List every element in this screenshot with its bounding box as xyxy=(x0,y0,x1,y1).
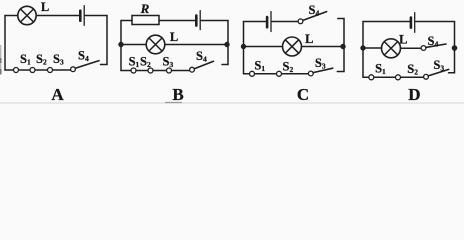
wire C middle rail left xyxy=(244,46,283,48)
wire B bottom rail xyxy=(121,70,190,72)
switch S4 lever open (B) xyxy=(194,61,213,69)
wire C middle rail right xyxy=(302,46,345,48)
wire D top rail left xyxy=(363,21,410,23)
scan artifact left edge xyxy=(0,45,2,75)
svg-text:A: A xyxy=(51,85,64,104)
switch S4 lever open (A) xyxy=(75,61,99,69)
wire D bottom rail xyxy=(363,76,424,78)
battery cell (D) xyxy=(411,13,415,33)
table rule at bottom xyxy=(0,102,464,104)
switch S2 terminal (D) xyxy=(396,75,401,80)
switch S3 terminal (A) xyxy=(48,68,53,73)
wire A top rail left xyxy=(5,15,18,17)
switch S4 lever open (C) xyxy=(303,12,327,21)
wire B top rail right xyxy=(201,20,228,22)
switch S4 pivot (D) xyxy=(421,46,426,51)
switch S1 terminal (D) xyxy=(369,75,374,80)
table rule darker dash xyxy=(165,102,182,104)
resistor R xyxy=(132,16,159,25)
wire D middle rail left xyxy=(363,47,382,49)
wire A right vertical with contact stub xyxy=(101,16,108,65)
switch S3 pivot (C) xyxy=(308,71,313,76)
switch S4 pivot (C) xyxy=(298,19,303,24)
switch S4 pivot (A) xyxy=(71,67,76,72)
node B left junction xyxy=(119,42,123,46)
switch S1 terminal (A) xyxy=(14,68,19,73)
battery cell (A) xyxy=(80,6,84,26)
switch S4 lever (D) xyxy=(426,44,446,47)
wire A top rail right xyxy=(85,15,107,17)
svg-text:L: L xyxy=(170,30,178,44)
lamp L (C) xyxy=(283,37,302,56)
node D right junction xyxy=(452,46,457,51)
wire D right vertical with contact stub xyxy=(449,22,455,73)
wire D left vertical xyxy=(362,22,364,78)
svg-text:D: D xyxy=(408,85,420,104)
wire B left vertical xyxy=(120,21,122,71)
wire C right vertical with contact stub xyxy=(337,19,344,72)
switch S4 pivot (B) xyxy=(190,67,195,72)
switch S1 terminal (C) xyxy=(250,71,255,76)
switch S3 terminal (B) xyxy=(167,68,172,73)
svg-text:R: R xyxy=(140,1,150,16)
switch S1 terminal (B) xyxy=(131,68,136,73)
wire C top rail left xyxy=(244,21,267,23)
wire C bottom rail xyxy=(244,73,309,75)
wire D top rail right xyxy=(416,21,455,23)
wire A left vertical xyxy=(4,16,6,71)
wire C left vertical xyxy=(243,22,245,74)
switch S3 pivot (D) xyxy=(424,74,429,79)
svg-text:C: C xyxy=(297,85,309,104)
switch S3 lever (C) xyxy=(313,68,333,72)
switch S2 terminal (B) xyxy=(148,68,153,73)
node C left junction xyxy=(241,44,245,48)
wire B middle rail right xyxy=(165,44,228,46)
wire B top rail middle xyxy=(159,20,195,22)
battery cell (B) xyxy=(196,11,200,30)
node C right junction xyxy=(341,44,345,48)
wire A bottom rail xyxy=(5,69,71,71)
wire B right vertical with contact stub xyxy=(222,21,228,65)
wire B middle rail left xyxy=(121,44,146,46)
svg-text:B: B xyxy=(172,85,183,104)
svg-text:L: L xyxy=(305,32,313,46)
battery cell (C) xyxy=(267,12,271,32)
wire A top rail middle xyxy=(36,15,79,17)
svg-text:L: L xyxy=(41,0,49,14)
switch S3 lever open (D) xyxy=(428,69,449,76)
wire D middle rail right xyxy=(401,47,422,49)
lamp L (D) xyxy=(382,39,401,58)
node D left junction xyxy=(361,46,365,50)
wire B top rail left xyxy=(121,20,132,22)
switch S2 terminal (A) xyxy=(30,68,35,73)
lamp L (B) xyxy=(146,35,165,54)
svg-text:L: L xyxy=(399,33,407,47)
node B right junction xyxy=(225,42,229,46)
switch S2 terminal (C) xyxy=(277,71,282,76)
wire C top rail right xyxy=(272,21,298,23)
lamp L (A) xyxy=(18,6,36,24)
